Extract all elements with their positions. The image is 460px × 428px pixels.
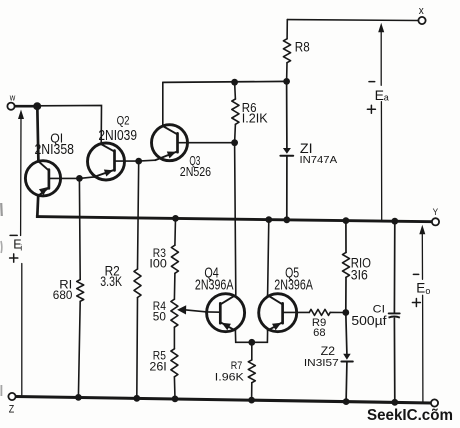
resistor R5: [171, 349, 178, 377]
svg-text:R8: R8: [295, 39, 310, 55]
wire Q4 collector up: [235, 143, 236, 295]
resistor R10: [343, 252, 350, 277]
scan artifact left edge 3: [0, 385, 2, 396]
node bottom C1 junction: [391, 399, 398, 406]
wire Z2 top: [346, 313, 347, 354]
terminal Y: [432, 218, 439, 225]
resistor R3: [171, 245, 178, 273]
resistor R9: [309, 309, 330, 315]
svg-text:Q2: Q2: [117, 116, 130, 128]
wire Q5 collector up: [268, 220, 269, 296]
terminal X: [418, 17, 425, 24]
capacitor C1 wire top: [393, 221, 395, 312]
wire Q1 emitter thick: [36, 196, 40, 217]
wire Q1 collector thick: [37, 106, 38, 161]
svg-text:2N396A: 2N396A: [274, 277, 313, 294]
svg-text:I.96K: I.96K: [215, 371, 245, 383]
wire R10 bottom: [345, 277, 347, 312]
svg-text:26I: 26I: [149, 359, 166, 373]
svg-text:E: E: [416, 280, 425, 295]
svg-text:68: 68: [313, 327, 325, 339]
wire R7 top: [251, 342, 253, 360]
zener Z1: [283, 148, 291, 154]
node rail Z1 junction: [283, 216, 290, 223]
svg-text:3.3K: 3.3K: [100, 274, 122, 289]
svg-text:2NI039: 2NI039: [98, 128, 137, 144]
wire R3-R4: [173, 273, 176, 299]
node Q2 base junction: [135, 158, 142, 165]
wire R2 top: [138, 161, 139, 269]
capacitor C1 wire bottom: [393, 318, 395, 402]
wire R8 top: [286, 20, 288, 39]
resistor R2: [134, 269, 141, 298]
svg-text:500µf: 500µf: [351, 314, 387, 328]
svg-text:IN3I57: IN3I57: [304, 357, 339, 369]
zener Z1 wire top: [286, 81, 288, 148]
terminal W: [7, 103, 14, 110]
svg-text:R7: R7: [231, 360, 243, 372]
resistor R8: [283, 39, 290, 63]
svg-text:2N526: 2N526: [180, 164, 211, 179]
zener Z2: [343, 354, 351, 360]
wire bottom rail Z: [16, 397, 431, 404]
wire Q3 collector up: [162, 82, 164, 126]
node R6 top junction: [231, 79, 238, 86]
node bottom R1 junction: [75, 394, 82, 401]
wire Q4 emitter down: [235, 331, 251, 343]
svg-text:Z: Z: [9, 404, 15, 416]
svg-text:x: x: [419, 5, 424, 17]
wire R7 bottom: [251, 383, 253, 400]
svg-text:3I6: 3I6: [351, 268, 368, 283]
R4 wiper arrow: [177, 305, 186, 314]
node W junction: [33, 102, 41, 110]
svg-text:IN747A: IN747A: [300, 155, 338, 166]
svg-text:w: w: [9, 93, 16, 103]
wire top rail X: [287, 19, 418, 22]
node rail Q5 collector junction: [265, 216, 272, 223]
wire R3 top: [174, 218, 177, 245]
scan artifact left edge 1: [0, 203, 3, 216]
terminal bottom right: [431, 399, 438, 406]
wire R2 bottom: [136, 298, 139, 399]
svg-text:I00: I00: [149, 257, 167, 271]
node bottom R2 junction: [133, 395, 140, 402]
capacitor C1: [389, 312, 400, 314]
svg-text:a: a: [384, 93, 389, 103]
wire mid rail Y: [36, 217, 432, 222]
wire R1 top: [78, 178, 81, 279]
node Ea measure line: [378, 23, 384, 33]
node Q1 base junction: [76, 175, 83, 182]
wire R8 bottom: [286, 63, 288, 82]
zener Z1 wire bottom: [286, 157, 288, 220]
transistor Q3: [152, 125, 188, 161]
node R8-Z1 junction: [283, 78, 290, 85]
potentiometer R4: [171, 299, 178, 327]
svg-text:I.2IK: I.2IK: [242, 110, 268, 125]
node bottom R5 junction: [172, 396, 179, 403]
zener Z2 wire bottom: [345, 363, 348, 402]
svg-text:ZI: ZI: [300, 141, 313, 156]
svg-text:Y: Y: [433, 207, 439, 217]
scan artifact left edge 2: [0, 241, 3, 253]
wire mid-top rail: [163, 81, 287, 82]
wire Q5 emitter down: [252, 331, 268, 343]
node rail R10 junction: [343, 217, 350, 224]
wire R9 to node: [330, 311, 346, 313]
node Ei measure line: [18, 110, 24, 120]
wire R10 top: [345, 221, 347, 253]
wire Q2 emitter to Q1 base: [79, 177, 94, 179]
node rail C1 junction: [391, 218, 398, 225]
svg-text:2NI358: 2NI358: [35, 142, 75, 158]
wire R1 bottom: [78, 301, 80, 397]
node emitter R7 junction: [248, 339, 255, 346]
node R9-R10-Z2 junction: [342, 309, 349, 316]
node Eo measure line: [419, 225, 425, 235]
resistor R7: [248, 360, 255, 383]
svg-text:50: 50: [153, 310, 166, 324]
wire Q3 emitter to Q2 base: [139, 159, 155, 162]
svg-text:SeekIC.cõm: SeekIC.cõm: [367, 407, 453, 424]
transistor Q1: [25, 161, 60, 196]
wire W to Q2 corner: [37, 105, 101, 144]
resistor R6 wire bottom: [234, 124, 237, 142]
svg-text:o: o: [425, 286, 430, 296]
wire Q4 base to R4 wiper: [186, 310, 207, 312]
wire R5 bottom: [173, 377, 176, 399]
wire R4-R5: [173, 327, 175, 349]
node bottom R7 junction: [248, 397, 255, 404]
resistor R6 wire top: [234, 82, 237, 99]
transistor Q2: [88, 143, 125, 180]
node bottom Z2 junction: [343, 398, 350, 405]
node rail R3 junction: [172, 215, 179, 222]
svg-text:2N396A: 2N396A: [195, 277, 234, 294]
transistor Q4: [207, 294, 245, 332]
svg-text:680: 680: [53, 288, 73, 302]
svg-text:E: E: [375, 87, 384, 103]
transistor Q5: [259, 294, 297, 332]
node R6 bottom junction: [231, 139, 238, 146]
resistor R6: [232, 99, 239, 124]
terminal Z: [8, 393, 15, 400]
wire R9 lead: [297, 311, 310, 313]
resistor R1: [77, 280, 84, 302]
svg-text:i: i: [20, 244, 22, 253]
wire W feed thick: [15, 105, 38, 108]
